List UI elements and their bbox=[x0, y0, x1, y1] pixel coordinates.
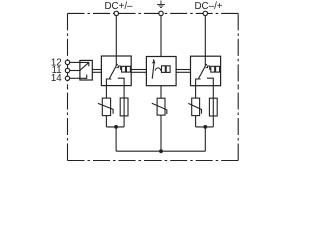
varistor R2 bbox=[152, 98, 167, 115]
wire module 1 to varistor R1 bbox=[105, 86, 107, 99]
wire varistor R1 down bbox=[105, 116, 107, 127]
node column 3 bbox=[203, 125, 207, 129]
svg-text:14: 14 bbox=[51, 73, 62, 84]
terminal earth bbox=[159, 11, 163, 15]
device boundary (dash-dot enclosure) bbox=[68, 13, 239, 160]
mechanical link module 2 to module 3 bbox=[176, 70, 190, 73]
earth symbol bbox=[157, 1, 165, 8]
module 1 lower-right contact bracket bbox=[118, 78, 124, 85]
mechanical link relay to module 1 bbox=[92, 70, 101, 73]
varistor R3 bbox=[188, 98, 201, 116]
wire module 3 to varistor R3 bbox=[195, 86, 197, 98]
wire DC+ feed bbox=[115, 13, 117, 65]
module 1 disconnect arm bbox=[109, 64, 118, 79]
wire terminal 11 to relay bbox=[68, 70, 80, 72]
module 1 trigger step bbox=[116, 66, 121, 69]
varistor R1 bbox=[98, 98, 113, 116]
wire column 1 drop bbox=[115, 127, 117, 151]
wire terminal 14 to relay bbox=[68, 77, 80, 79]
protection module box 3 bbox=[191, 56, 221, 85]
relay NC contact 12 bbox=[80, 62, 89, 66]
module 3 trigger step bbox=[206, 66, 211, 69]
protection module box 2 bbox=[146, 57, 176, 86]
wire DC- feed bbox=[204, 13, 206, 65]
wire earth feed bbox=[160, 13, 162, 56]
terminal 11 bbox=[65, 68, 69, 72]
wire terminal 12 to relay bbox=[68, 61, 80, 63]
wire joining column 3 bbox=[196, 126, 214, 128]
wire module 1 through fuse F1 bbox=[123, 86, 125, 127]
remote signalling contact box K1 bbox=[80, 60, 92, 80]
module 1 lower-left contact plate bbox=[106, 79, 111, 86]
protection module box 1 bbox=[101, 56, 131, 86]
fuse F3 bbox=[209, 98, 217, 116]
module 2 disconnect arm bbox=[152, 60, 154, 78]
relay NO contact 14 bbox=[80, 75, 87, 79]
terminal DC-/+ bbox=[203, 11, 207, 15]
wire column 3 drop bbox=[204, 127, 206, 151]
module 2 fuse icon bbox=[162, 66, 171, 73]
terminal DC+/- bbox=[114, 11, 118, 15]
relay switch arm bbox=[80, 63, 89, 71]
wire bottom bus bbox=[116, 150, 205, 152]
svg-text:DC–/+: DC–/+ bbox=[194, 1, 222, 12]
wire varistor R3 down bbox=[195, 116, 197, 127]
module 2 trigger arc bbox=[155, 68, 161, 71]
module 1 fuse icon bbox=[122, 66, 131, 72]
svg-text:DC+/–: DC+/– bbox=[104, 1, 133, 12]
module 2 trigger tick bbox=[152, 59, 155, 63]
wire varistor R2 to bus bbox=[160, 115, 162, 151]
module 3 lower-left contact plate bbox=[196, 79, 201, 86]
terminal 14 bbox=[65, 76, 69, 80]
terminal 12 bbox=[65, 60, 69, 64]
wire joining column 1 bbox=[106, 126, 124, 128]
module 3 disconnect arm bbox=[198, 64, 207, 79]
module 3 lower-right contact bracket bbox=[207, 78, 213, 86]
wire module 3 through fuse F3 bbox=[212, 86, 214, 127]
node column 1 bbox=[114, 125, 118, 129]
node bottom bus bbox=[159, 149, 163, 153]
module 3 fuse icon bbox=[211, 66, 220, 72]
fuse F1 bbox=[120, 98, 128, 116]
mechanical link module 1 to module 2 bbox=[131, 70, 146, 73]
wire module 2 to varistor R2 bbox=[160, 86, 162, 99]
